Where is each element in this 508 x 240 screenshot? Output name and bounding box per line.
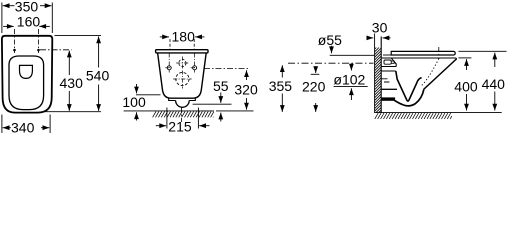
svg-text:55: 55 [213, 78, 229, 94]
svg-text:430: 430 [60, 75, 84, 91]
svg-text:215: 215 [168, 119, 192, 135]
svg-text:30: 30 [372, 20, 388, 36]
svg-text:440: 440 [482, 76, 506, 92]
svg-text:340: 340 [11, 120, 35, 136]
svg-text:350: 350 [15, 0, 39, 14]
svg-text:160: 160 [17, 13, 41, 29]
svg-text:355: 355 [269, 78, 293, 94]
svg-text:220: 220 [302, 78, 326, 94]
svg-text:400: 400 [454, 78, 478, 94]
svg-text:ø102: ø102 [333, 71, 365, 87]
svg-text:180: 180 [172, 29, 196, 45]
svg-text:540: 540 [86, 68, 110, 84]
svg-text:ø55: ø55 [318, 32, 342, 48]
svg-text:320: 320 [234, 82, 258, 98]
svg-text:100: 100 [122, 94, 146, 110]
